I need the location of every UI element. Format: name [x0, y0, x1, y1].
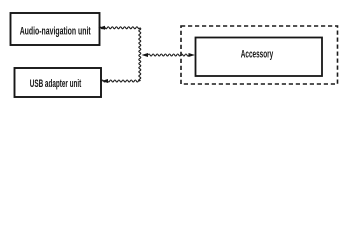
svg-text:USB adapter unit: USB adapter unit	[30, 78, 82, 90]
svg-text:Accessory: Accessory	[241, 49, 274, 61]
svg-text:Audio-navigation unit: Audio-navigation unit	[20, 26, 91, 38]
